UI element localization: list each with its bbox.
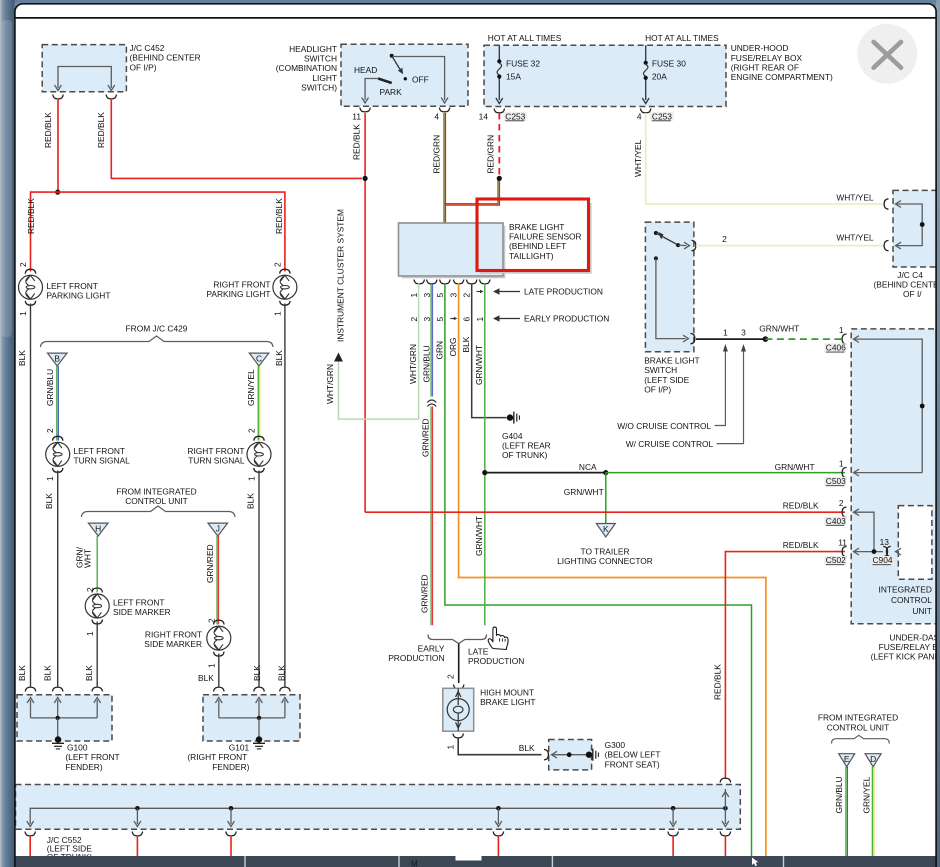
label UNDER-DASH FUSE/RELAY BOX (LEFT KICK PANEL) [871,632,940,661]
svg-text:G101: G101 [229,743,250,753]
svg-text:GRN/WHT: GRN/WHT [474,516,484,556]
J/C C452 label [130,43,201,72]
svg-text:GRN/WHT: GRN/WHT [564,487,604,497]
svg-text:BLK: BLK [461,336,471,352]
window corner patches [15,4,937,13]
svg-text:TURN SIGNAL: TURN SIGNAL [188,456,245,466]
svg-text:(LEFT KICK PANEL): (LEFT KICK PANEL) [871,652,940,662]
label FROM J/C C429 [126,324,188,334]
node junction GRN/WHT NCA [482,470,487,475]
ICU sub-connector box [898,506,932,580]
svg-text:OFF: OFF [412,74,429,84]
svg-text:BLK: BLK [17,665,27,681]
svg-text:GRN/BLU: GRN/BLU [422,345,432,382]
wire ORG sensor pin 4 [448,284,766,859]
connector cups under J/C C452 [53,95,117,99]
wire GRN/YEL from triangle D [861,767,874,858]
connector triangle K to trailer [596,524,615,538]
ground G300 box [544,740,598,770]
svg-text:LEFT FRONT: LEFT FRONT [46,281,98,291]
svg-text:ENGINE COMPARTMENT): ENGINE COMPARTMENT) [731,72,833,82]
svg-text:1: 1 [409,293,419,298]
pin 1 C503 [839,458,844,468]
svg-text:FRONT SEAT): FRONT SEAT) [605,759,660,769]
svg-text:OF I/: OF I/ [903,289,922,299]
pin 3 brake switch output [741,327,746,337]
svg-text:M: M [411,860,418,867]
svg-text:HIGH MOUNT: HIGH MOUNT [480,687,534,697]
ground G404 [507,412,520,424]
svg-text:1: 1 [85,631,95,636]
svg-text:C253: C253 [652,111,672,121]
label FROM INTEGRATED CONTROL UNIT [116,486,196,506]
arrow W/ CRUISE CONTROL [626,344,746,449]
label LEFT FRONT TURN SIGNAL [74,446,131,466]
svg-text:C503: C503 [826,476,846,486]
svg-text:BLK: BLK [277,665,287,681]
svg-text:OF I/P): OF I/P) [130,62,157,72]
wire GRN/RED sensor pin 2 lower [420,407,433,626]
svg-text:H: H [95,523,101,533]
pin 2 left parking light [18,262,28,267]
svg-text:14: 14 [479,111,489,121]
svg-text:1: 1 [839,458,844,468]
window left edge strip [0,0,15,867]
svg-text:TURN SIGNAL: TURN SIGNAL [74,456,131,466]
svg-text:UNDER-HOOD: UNDER-HOOD [731,43,789,53]
svg-text:E: E [844,754,850,764]
pin 1 right parking light [272,311,282,316]
wire NCA [485,462,606,473]
label G101 [187,743,249,772]
svg-text:ORG: ORG [448,337,458,356]
label BRAKE LIGHT SWITCH (LEFT SIDE OF I/P) [644,356,699,395]
svg-text:HOT AT ALL TIMES: HOT AT ALL TIMES [488,33,562,43]
svg-text:1: 1 [445,745,455,750]
label WHT/GRN (cluster side) [325,364,335,404]
svg-text:LATE PRODUCTION: LATE PRODUCTION [524,287,603,297]
svg-text:RED/BLK: RED/BLK [783,501,819,511]
svg-text:1: 1 [45,476,55,481]
switch position label HEAD [354,65,377,75]
svg-text:6: 6 [462,317,472,322]
sensor pin row late production: 1 3 5 3 2 [409,290,483,298]
svg-text:4: 4 [434,111,439,121]
svg-text:PARKING LIGHT: PARKING LIGHT [206,289,270,299]
pin 4 [434,111,439,121]
svg-text:SWITCH: SWITCH [304,54,337,64]
lamp RIGHT FRONT SIDE MARKER [207,620,231,656]
svg-text:UNDER-DASH: UNDER-DASH [889,632,940,642]
connector label C403 [824,516,846,526]
label RIGHT FRONT SIDE MARKER [144,630,202,650]
lamp LEFT FRONT PARKING LIGHT [19,269,43,305]
svg-text:(BELOW LEFT: (BELOW LEFT [605,750,661,760]
pin 2 left side marker [85,587,95,592]
connector label C253 (fuse 30) [650,111,674,121]
svg-text:1: 1 [475,317,485,322]
wire BLK left side marker to G100 [84,622,97,687]
fuse F30 20A [642,45,649,103]
svg-text:PRODUCTION: PRODUCTION [388,653,444,663]
connector triangle B [48,353,68,366]
wire RED/BLK to C502 [712,540,845,779]
svg-text:FUSE 30: FUSE 30 [652,58,686,68]
svg-text:RIGHT FRONT: RIGHT FRONT [213,280,270,290]
pin 1 C406 [839,325,844,335]
svg-text:PARK: PARK [380,87,403,97]
connector triangle E [839,754,855,767]
svg-text:1: 1 [18,311,28,316]
connector label C406 [824,343,846,353]
lamp LEFT FRONT SIDE MARKER [85,588,109,624]
connector label C503 [824,476,846,486]
pin 2 high mount [445,674,455,679]
svg-text:RED/BLK: RED/BLK [352,124,362,160]
label INSTRUMENT CLUSTER SYSTEM (vertical) [336,209,346,342]
svg-text:(RIGHT FRONT: (RIGHT FRONT [187,752,247,762]
svg-text:WHT/YEL: WHT/YEL [633,139,643,177]
pin 2 C403 [839,498,844,508]
brace from integrated control unit [81,506,235,517]
svg-text:G100: G100 [67,743,88,753]
svg-text:5: 5 [435,293,445,298]
wire GRN/YEL triangle C to right turn signal [246,366,260,441]
svg-text:OF I/P): OF I/P) [644,385,671,395]
diagram frame top line [16,17,936,19]
svg-text:FUSE/RELAY BOX: FUSE/RELAY BOX [731,53,803,63]
svg-text:D: D [870,754,876,764]
pin 2 right parking light [272,262,282,267]
switch position label OFF [412,74,429,84]
wire BLK right turn signal to G101 [246,471,263,687]
label WHT/YEL lower [836,232,874,242]
lamp LEFT FRONT TURN SIGNAL [46,436,70,472]
ICU pin C406 [842,334,925,473]
svg-text:G404: G404 [502,431,523,441]
arrow W/O CRUISE CONTROL [617,344,728,431]
svg-text:TO TRAILER: TO TRAILER [580,547,629,557]
svg-text:(BEHIND CENTE: (BEHIND CENTE [874,280,940,290]
svg-text:INTEGRATED: INTEGRATED [879,585,932,595]
lamp RIGHT FRONT TURN SIGNAL [247,436,271,472]
fuse box output cups [494,109,651,113]
junction connector J/C C452 box [42,45,126,92]
arrow EARLY PRODUCTION [493,314,609,324]
svg-text:GRN/YEL: GRN/YEL [861,776,871,813]
svg-text:(LEFT FRONT: (LEFT FRONT [65,752,119,762]
pin 11 [352,111,361,121]
wire RED/BLK from J/C C452 right pin [96,99,362,179]
svg-text:CONTROL: CONTROL [891,595,932,605]
svg-text:13: 13 [880,537,890,547]
label RIGHT FRONT TURN SIGNAL [187,446,244,466]
svg-text:BLK: BLK [44,493,54,509]
svg-text:WHT/YEL: WHT/YEL [836,232,874,242]
label INTEGRATED CONTROL UNIT [879,585,933,616]
svg-text:GRN/WHT: GRN/WHT [759,324,799,334]
svg-text:B: B [54,353,60,363]
wire splice break symbol [427,400,436,407]
svg-text:SIDE MARKER: SIDE MARKER [113,607,171,617]
svg-text:C: C [256,353,262,363]
sensor pin row early production: 2 3 5 6 1 [409,317,485,322]
pin 1 right turn signal [247,476,257,481]
svg-text:INSTRUMENT CLUSTER SYSTEM: INSTRUMENT CLUSTER SYSTEM [336,209,346,342]
lamp RIGHT FRONT PARKING LIGHT [273,269,297,305]
svg-text:LEFT FRONT: LEFT FRONT [113,598,165,608]
svg-text:GRN/YEL: GRN/YEL [246,369,256,406]
svg-text:UNIT: UNIT [912,606,932,616]
pin 14 [479,111,489,121]
svg-text:W/O CRUISE CONTROL: W/O CRUISE CONTROL [617,421,711,431]
svg-text:BRAKE LIGHT: BRAKE LIGHT [480,697,535,707]
headlight switch box [341,44,468,106]
svg-text:WHT/GRN: WHT/GRN [408,344,418,384]
high mount brake light box [443,685,474,732]
label WHT/YEL upper [836,193,874,203]
connector triangle H [88,523,108,536]
integrated control unit box [851,329,940,624]
svg-text:BLK: BLK [252,665,262,681]
svg-text:LIGHTING CONNECTOR: LIGHTING CONNECTOR [557,556,653,566]
mouse cursor [488,627,508,649]
svg-text:GRN: GRN [434,341,444,360]
wire GRN/WHT sensor pin 6 [474,284,485,626]
svg-text:W/ CRUISE CONTROL: W/ CRUISE CONTROL [626,439,714,449]
label HEADLIGHT SWITCH (COMBINATION LIGHT SWITCH) [276,44,337,93]
pin 13 C904 [880,537,890,547]
svg-text:5: 5 [435,317,445,322]
svg-text:EARLY PRODUCTION: EARLY PRODUCTION [524,314,609,324]
svg-text:G300: G300 [605,740,626,750]
pin 1 left side marker [85,631,95,636]
headlight switch pin cups [360,108,450,112]
pin 2 right side marker [207,618,217,623]
svg-text:HEAD: HEAD [354,65,377,75]
label WHT/GRN (sensor side) [408,344,418,384]
svg-text:C403: C403 [826,516,846,526]
switch position label PARK [380,87,403,97]
svg-text:EARLY: EARLY [418,643,445,653]
label FUSE 30 20A [652,58,686,81]
label J/C C552 (LEFT SIDE OF TRUNK) [47,835,93,862]
wire GRN/BLU triangle B to left turn signal [45,366,59,441]
connector triangle D [865,754,881,767]
svg-text:FROM INTEGRATED: FROM INTEGRATED [116,486,196,496]
wire BLK right side marker to G101 [198,654,219,687]
ICU pin C403 [842,507,874,552]
svg-text:PRODUCTION: PRODUCTION [468,656,524,666]
wire RED/BLK from J/C C452 left pin [43,99,58,193]
svg-text:NCA: NCA [579,462,597,472]
svg-text:BLK: BLK [519,743,535,753]
brake light switch upper contact [654,231,696,251]
svg-text:3: 3 [741,327,746,337]
pin 2 WHT/YEL [722,234,727,244]
wire GRN/WHT to C503 [606,462,845,473]
node junction brake switch wire [763,336,769,342]
pin 11 C502 [838,538,847,548]
svg-text:2: 2 [462,293,472,298]
connector label C904 [871,555,893,565]
svg-text:RED/BLK: RED/BLK [712,664,722,700]
label J/C C4 (BEHIND CENTER OF I/P) [874,270,940,299]
pin 1 high mount [445,745,455,750]
label RED/BLK left branch [26,198,36,234]
svg-text:WHT: WHT [83,549,93,568]
wire RED/GRN from headlight switch pin 4 (red strand) [432,113,500,223]
svg-text:BRAKE LIGHT: BRAKE LIGHT [644,356,699,366]
svg-text:C406: C406 [826,343,846,353]
wire WHT/YEL switch to J/C [696,245,884,247]
brake light switch lower contact [654,256,695,343]
svg-text:3: 3 [449,293,459,298]
svg-text:FUSE 32: FUSE 32 [506,58,540,68]
svg-text:(COMBINATION: (COMBINATION [276,63,337,73]
wire BLK left parking light to G100 [17,304,31,687]
pin 2 right turn signal [247,428,257,433]
svg-text:BLK: BLK [246,493,256,509]
wire RED/GRN from headlight switch pin 4 (green strand) [444,113,498,223]
pin 1 right side marker [207,663,217,668]
label EARLY PRODUCTION [388,643,445,663]
ICU pin C503 [842,467,922,477]
J/C C4 internal connector [884,199,925,251]
svg-text:BLK: BLK [84,665,94,681]
wire GRN/BLU sensor pin 2 upper [422,284,433,397]
label UNDER-HOOD FUSE/RELAY BOX [731,43,833,82]
svg-text:GRN/WHT: GRN/WHT [474,345,484,385]
svg-text:LEFT FRONT: LEFT FRONT [74,446,126,456]
brake light failure sensor box [399,223,505,278]
connector triangle J [208,523,228,536]
brace bottom right [832,735,890,743]
svg-text:SIDE MARKER: SIDE MARKER [144,639,202,649]
close button [857,24,917,84]
wire RED/BLK parking light feed bus [31,192,285,271]
wire WHT/YEL from fuse 30 [633,113,884,204]
junction connector J/C C552 box [16,785,741,830]
svg-text:GRN/BLU: GRN/BLU [45,369,55,406]
svg-text:C253: C253 [505,111,525,121]
svg-text:11: 11 [352,111,361,121]
label TO TRAILER LIGHTING CONNECTOR [557,547,653,567]
svg-text:RED/BLK: RED/BLK [26,198,36,234]
pin 1 left turn signal [45,476,55,481]
connector triangle C [249,353,268,366]
svg-text:20A: 20A [652,72,667,82]
svg-text:RED/GRN: RED/GRN [486,135,496,174]
sensor output cups [414,280,490,284]
label BRAKE LIGHT FAILURE SENSOR (BEHIND LEFT TAILLIGHT) [509,222,582,261]
wire to high mount brake light [458,644,460,684]
high mount output cup [453,734,463,738]
svg-text:(BEHIND LEFT: (BEHIND LEFT [509,241,566,251]
wire BLK right parking light to G101 [274,304,287,687]
wire RED/GRN dashed from fuse 32 C253 [486,113,500,176]
headlight switch internal contacts [362,54,448,103]
label FROM INTEGRATED CONTROL UNIT (bottom right) [818,713,898,733]
wire GRN/WHT down to trailer connector [564,473,606,524]
svg-text:OF TRUNK): OF TRUNK) [502,450,548,460]
svg-text:RIGHT FRONT: RIGHT FRONT [145,630,202,640]
svg-text:15A: 15A [506,72,521,82]
wire GRN/BLU from triangle E [834,767,847,858]
svg-text:2: 2 [45,428,55,433]
label HIGH MOUNT BRAKE LIGHT [480,687,535,707]
window bottom toolbar [14,856,940,867]
svg-text:11: 11 [838,538,847,548]
svg-text:HOT AT ALL TIMES: HOT AT ALL TIMES [645,33,719,43]
svg-text:J: J [216,523,220,533]
svg-text:CONTROL UNIT: CONTROL UNIT [125,496,188,506]
svg-text:SWITCH: SWITCH [644,365,677,375]
svg-text:FROM J/C C429: FROM J/C C429 [126,324,188,334]
svg-text:FENDER): FENDER) [65,762,102,772]
connector label C502 [824,555,846,565]
svg-text:(RIGHT REAR OF: (RIGHT REAR OF [731,63,799,73]
pin 4 (fuse 30) [637,111,642,121]
svg-text:1: 1 [839,325,844,335]
svg-text:PARKING LIGHT: PARKING LIGHT [46,291,110,301]
svg-text:2: 2 [722,234,727,244]
label G100 [65,743,119,772]
connector label C253 (fuse 32) [504,111,528,121]
brace from J/C C429 [41,336,274,347]
svg-text:SWITCH): SWITCH) [301,83,337,93]
wire BLK high mount to G300 [458,738,541,755]
svg-text:2: 2 [839,498,844,508]
J/C C552 internal bus [27,789,729,827]
svg-text:RED/BLK: RED/BLK [274,198,284,234]
svg-text:RED/GRN: RED/GRN [432,135,442,174]
node junction on left parking feed [55,190,60,195]
cup above C552 at RED/BLK entry [720,778,730,782]
pin 1 brake switch output [723,327,728,337]
svg-text:(LEFT REAR: (LEFT REAR [502,441,551,451]
svg-text:1: 1 [723,327,728,337]
wire GRN/WHT triangle H to left side marker [75,536,98,592]
fuse F32 15A [496,45,503,103]
wire RED/BLK to C403 [365,501,845,513]
label HOT AT ALL TIMES (fuse 30) [645,33,719,43]
label RED/BLK right branch [274,198,284,234]
svg-text:2: 2 [445,674,455,679]
svg-text:1: 1 [247,476,257,481]
svg-text:4: 4 [637,111,642,121]
svg-text:C904: C904 [873,555,893,565]
svg-text:GRN/BLU: GRN/BLU [834,776,844,813]
svg-text:J/C C4: J/C C4 [897,270,923,280]
wire GRN/RED triangle J to right side marker [205,536,219,624]
svg-text:1: 1 [272,311,282,316]
wires RED below J/C C552 [30,836,725,859]
pin 2 left turn signal [45,428,55,433]
label HOT AT ALL TIMES (fuse 32) [488,33,562,43]
connector C904 [883,546,901,556]
wire WHT/GRN sensor pin 1 to instrument cluster [339,284,419,420]
label LEFT FRONT PARKING LIGHT [46,281,110,301]
wire BLK sensor pin 5 to G404 [461,284,506,418]
label G404 (LEFT REAR OF TRUNK) [502,431,551,460]
svg-text:GRN/WHT: GRN/WHT [775,462,815,472]
svg-text:K: K [603,524,609,534]
svg-text:RED/BLK: RED/BLK [96,112,106,148]
svg-text:RIGHT FRONT: RIGHT FRONT [187,446,244,456]
svg-text:(BEHIND CENTER: (BEHIND CENTER [130,53,201,63]
ICU pin C502 [842,546,883,556]
